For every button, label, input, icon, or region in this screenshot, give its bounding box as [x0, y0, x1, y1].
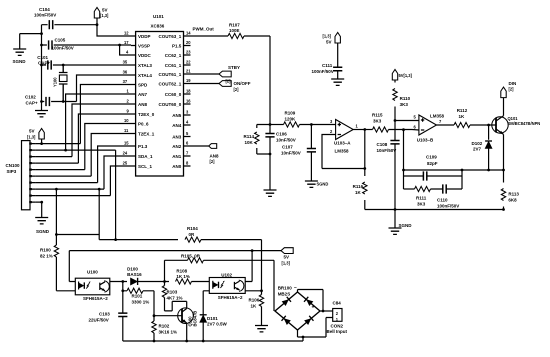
- svg-text:10nF/50V: 10nF/50V: [276, 137, 296, 142]
- svg-text:T2EX_0: T2EX_0: [138, 112, 155, 117]
- svg-text:C111: C111: [322, 63, 333, 68]
- wire CON2 pin1 to bridge bottom: [298, 318, 333, 338]
- svg-text:R113: R113: [508, 192, 519, 197]
- node R116 tap: [363, 167, 366, 170]
- wire CN100 pin10 to ground: [35, 202, 41, 217]
- svg-text:[2]: [2]: [210, 159, 216, 164]
- svg-text:[1,3]: [1,3]: [100, 13, 109, 18]
- IC U101 right pin numbers: [186, 31, 191, 166]
- wire R110 node to opamp B +in: [395, 120, 419, 122]
- svg-text:D100: D100: [127, 266, 138, 271]
- svg-text:36: 36: [123, 70, 128, 75]
- svg-text:2V7: 2V7: [473, 147, 482, 152]
- svg-text:10nF/50V: 10nF/50V: [377, 148, 397, 153]
- wire bottom common rail: [123, 337, 303, 341]
- op-amp U103-B LM358: [414, 114, 445, 143]
- node R104 feed: [114, 238, 117, 241]
- capacitor C108: [377, 121, 400, 210]
- svg-text:AN4: AN4: [172, 123, 181, 128]
- svg-text:C110: C110: [437, 198, 448, 203]
- svg-text:XTAL3: XTAL3: [138, 63, 152, 68]
- svg-text:R112: R112: [457, 108, 468, 113]
- svg-text:5V: 5V: [102, 8, 108, 13]
- 5V power symbol (R110): [392, 70, 412, 81]
- resistor R116: [353, 169, 367, 210]
- svg-text:R102: R102: [159, 324, 170, 329]
- svg-text:R105, 0R: R105, 0R: [181, 253, 201, 258]
- svg-text:LM358: LM358: [335, 149, 350, 154]
- svg-text:120K: 120K: [285, 116, 297, 121]
- svg-text:C109: C109: [426, 155, 437, 160]
- resistor R108: [176, 268, 210, 284]
- svg-text:3300 1%: 3300 1%: [132, 299, 150, 304]
- svg-text:16: 16: [186, 99, 191, 104]
- wire R112 to Q101 base: [470, 124, 496, 126]
- capacitor C107: [281, 125, 316, 182]
- svg-text:1K 1%: 1K 1%: [176, 274, 190, 279]
- svg-text:100nF/50V: 100nF/50V: [312, 69, 334, 74]
- node Q100 base: [153, 314, 156, 317]
- svg-text:CC62_1: CC62_1: [165, 53, 182, 58]
- node feedback B junction: [402, 128, 405, 131]
- svg-text:37: 37: [123, 79, 128, 84]
- wire opamp B feedback vertical: [403, 130, 405, 189]
- svg-text:P0_6: P0_6: [138, 122, 149, 127]
- svg-text:LM358: LM358: [430, 114, 445, 119]
- wire R109 to opamp A +in: [300, 124, 336, 126]
- IC U101 left pin numbers: [123, 31, 130, 166]
- tag 5V [1,3] (supply flag): [281, 248, 293, 266]
- svg-text:AN8: AN8: [210, 154, 219, 159]
- resistor R104: [185, 226, 201, 242]
- svg-text:AN0: AN0: [172, 164, 181, 169]
- svg-text:[1,3]: [1,3]: [282, 260, 291, 265]
- node R103/R105 junction: [163, 280, 166, 283]
- svg-text:SPD: SPD: [138, 83, 148, 88]
- node filter top and bottom: [269, 123, 272, 126]
- svg-text:ON/OFF: ON/OFF: [234, 81, 251, 86]
- svg-text:100nF/50V: 100nF/50V: [34, 13, 56, 18]
- svg-text:R106: R106: [249, 298, 260, 303]
- wire PWM out to R107: [191, 35, 229, 37]
- diode D100 BAS16: [127, 266, 169, 285]
- node C107 tap: [310, 123, 313, 126]
- svg-text:U102: U102: [221, 272, 232, 277]
- svg-text:P1.5: P1.5: [172, 44, 182, 49]
- resistor R110: [393, 80, 411, 121]
- svg-text:C84: C84: [333, 300, 342, 305]
- wire U100 collector to D100: [110, 281, 127, 283]
- svg-text:Y100: Y100: [53, 77, 58, 87]
- svg-text:5V: 5V: [326, 40, 332, 45]
- svg-text:3K3: 3K3: [400, 102, 409, 107]
- capacitor C102: [25, 95, 49, 107]
- node U102 collector tap: [251, 249, 254, 252]
- svg-text:C104: C104: [39, 7, 50, 12]
- svg-text:C106: C106: [276, 132, 287, 137]
- ground (R106): [255, 326, 268, 332]
- op-amp U103-A LM358: [330, 119, 359, 154]
- svg-text:82 1%: 82 1%: [40, 253, 53, 258]
- wire bridge plus to CON2 pin2 row: [320, 310, 333, 312]
- wire CN100 pin7 to P1.3: [35, 146, 131, 183]
- svg-text:10K: 10K: [245, 140, 254, 145]
- node opamp A output: [363, 128, 366, 131]
- svg-text:3K16 1%: 3K16 1%: [159, 329, 178, 334]
- svg-text:T2EX_1: T2EX_1: [138, 132, 155, 137]
- svg-text:CN100: CN100: [6, 163, 21, 168]
- wire CN100 pin5 to P0_6: [35, 124, 131, 170]
- svg-text:21: 21: [186, 69, 191, 74]
- svg-text:C101: C101: [37, 55, 48, 60]
- wire R107 to filter node: [244, 36, 270, 125]
- svg-text:U103–A: U103–A: [334, 141, 351, 146]
- ground SGND (top left): [13, 34, 27, 64]
- resistor R113: [501, 170, 519, 210]
- svg-text:U100: U100: [87, 269, 98, 274]
- svg-text:SDA_1: SDA_1: [138, 154, 153, 159]
- wire opto drive jog to R104: [56, 235, 178, 240]
- svg-text:22UF/50V: 22UF/50V: [89, 317, 109, 322]
- wire bridge minus output to CON2 pin2: [298, 290, 324, 312]
- tag DIN: [501, 81, 516, 98]
- svg-text:BAS16: BAS16: [127, 272, 142, 277]
- svg-text:R110: R110: [400, 96, 411, 101]
- svg-text:VSSP: VSSP: [138, 44, 150, 49]
- node crystal top: [62, 64, 65, 67]
- optocoupler U100 SFH615A-2: [75, 269, 110, 301]
- capacitor C101: [37, 55, 51, 70]
- wire C102 row to XTAL4: [42, 75, 132, 102]
- svg-text:10nF/50V: 10nF/50V: [281, 150, 301, 155]
- svg-text:19: 19: [186, 78, 191, 83]
- svg-text:U101: U101: [153, 14, 164, 19]
- svg-text:D102: D102: [472, 141, 483, 146]
- resistor R109: [270, 111, 300, 128]
- svg-text:R107: R107: [229, 23, 240, 28]
- svg-text:12: 12: [124, 31, 129, 36]
- wire CN100 pin2 to AN7 and R104 feed: [35, 94, 131, 240]
- svg-text:COUT63_1: COUT63_1: [159, 34, 182, 39]
- resistor R107: [228, 23, 244, 39]
- IC U101 left pin stubs: [131, 36, 136, 166]
- svg-text:AN8: AN8: [138, 102, 147, 107]
- IC U101 left pin names: [138, 34, 155, 169]
- svg-text:[2]: [2]: [234, 87, 240, 92]
- wire analog ground rail: [365, 209, 504, 211]
- node feedback left: [402, 169, 405, 172]
- capacitor C110: [431, 184, 463, 208]
- resistor R106: [249, 291, 264, 326]
- svg-text:20: 20: [186, 40, 191, 45]
- svg-text:PWM_Out: PWM_Out: [193, 27, 215, 32]
- svg-text:1K: 1K: [251, 303, 258, 308]
- wire emitter/feedback horizontal: [404, 169, 504, 171]
- node rail junctions bottom: [153, 340, 156, 343]
- svg-text:C105: C105: [55, 38, 66, 43]
- svg-text:XTAL4: XTAL4: [138, 73, 152, 78]
- svg-text:COUT61_1: COUT61_1: [159, 72, 182, 77]
- capacitor C106: [265, 125, 295, 155]
- optocoupler U102 SFH615A-2: [209, 272, 245, 300]
- ground (crystal): [35, 102, 48, 117]
- svg-text:BR100: BR100: [278, 286, 293, 291]
- svg-text:18: 18: [186, 89, 191, 94]
- wire 5V supply run (U100 anode / U102 collector): [69, 251, 281, 282]
- svg-text:SIP3: SIP3: [7, 169, 17, 174]
- svg-text:23: 23: [186, 50, 191, 55]
- svg-text:SGND: SGND: [317, 182, 329, 187]
- ground (C111): [331, 79, 344, 85]
- wire CN100 pin1 to 5V and SPD: [35, 85, 131, 144]
- diode D102 (zener 2V7): [472, 125, 493, 170]
- svg-text:5V: 5V: [29, 129, 35, 134]
- svg-text:[2]: [2]: [509, 87, 515, 92]
- svg-text:CC61_1: CC61_1: [165, 63, 182, 68]
- svg-text:22: 22: [186, 60, 191, 65]
- svg-text:SM/BC847B/NPN: SM/BC847B/NPN: [508, 121, 541, 126]
- svg-text:100nF/50V: 100nF/50V: [437, 203, 459, 208]
- svg-text:BC847B: BC847B: [193, 311, 198, 327]
- svg-text:COUT60_0: COUT60_0: [159, 102, 182, 107]
- node R100 top junction: [55, 233, 58, 236]
- svg-text:4K7 1%: 4K7 1%: [167, 295, 183, 300]
- wire CN100 pin8 to SDA_1 with opto branches: [35, 156, 131, 235]
- svg-text:0R: 0R: [189, 232, 196, 237]
- wire CN100 pin3 to AN8: [35, 104, 131, 157]
- wire CN100 pin4 to T2EX_0: [35, 114, 131, 163]
- bridge rectifier BR100 MB2S: [275, 285, 320, 330]
- svg-text:SCL_1: SCL_1: [138, 164, 153, 169]
- node CN100 pin1: [40, 142, 43, 145]
- svg-text:6K8: 6K8: [508, 197, 517, 202]
- svg-text:U103–B: U103–B: [417, 138, 434, 143]
- svg-text:R101: R101: [132, 294, 143, 299]
- 5V power symbol (above CN100): [27, 129, 44, 140]
- svg-text:−: −: [294, 285, 297, 291]
- wire opamp A feedback loop: [322, 130, 365, 169]
- svg-text:Bell Input: Bell Input: [327, 329, 348, 334]
- svg-text:AN3: AN3: [172, 135, 181, 140]
- node emitter junction: [502, 169, 505, 172]
- svg-text:100E: 100E: [229, 28, 240, 33]
- svg-text:STBY: STBY: [228, 65, 240, 70]
- resistor R112: [437, 108, 471, 128]
- svg-text:COUT62_1: COUT62_1: [159, 82, 182, 87]
- svg-text:1K: 1K: [459, 114, 466, 119]
- node U100 emitter / C103: [121, 289, 124, 292]
- svg-text:SFH615A–2: SFH615A–2: [218, 295, 243, 300]
- svg-text:R103: R103: [167, 290, 178, 295]
- svg-text:14: 14: [186, 31, 191, 36]
- wire R115 to opamp B -in: [389, 129, 419, 132]
- node C103/R101 top: [121, 280, 124, 283]
- svg-text:3K3: 3K3: [373, 118, 382, 123]
- svg-text:R115: R115: [372, 113, 383, 118]
- svg-text:1K: 1K: [355, 190, 362, 195]
- svg-text:AN1: AN1: [172, 154, 181, 159]
- svg-text:C108: C108: [377, 142, 388, 147]
- ground SGND (CN100): [35, 218, 50, 235]
- node pin2 junction: [322, 310, 325, 313]
- transistor Q100 BC847B: [154, 308, 198, 341]
- svg-text:SGND: SGND: [13, 59, 27, 64]
- wire CN100 pin6 to T2EX_1: [35, 134, 131, 177]
- 5V power symbol (top, near IC): [94, 8, 109, 25]
- connector CN100 SIP3: [6, 141, 36, 210]
- resistor R115: [365, 113, 389, 133]
- svg-text:VDDC: VDDC: [138, 53, 152, 58]
- svg-text:82pF: 82pF: [427, 161, 438, 166]
- svg-text:[1,3]: [1,3]: [27, 135, 36, 140]
- svg-text:R104: R104: [187, 226, 198, 231]
- svg-text:R100: R100: [40, 248, 51, 253]
- svg-text:P1.3: P1.3: [138, 144, 148, 149]
- connector CON2 Bell Input: [327, 300, 348, 334]
- resistor R103: [162, 282, 186, 311]
- svg-text:AN5: AN5: [172, 113, 181, 118]
- node D102 top: [487, 124, 490, 127]
- svg-text:C103: C103: [99, 312, 110, 317]
- svg-text:MB2S: MB2S: [278, 291, 291, 296]
- resistor R114: [244, 125, 271, 155]
- wire feedback right vertical: [461, 170, 463, 189]
- tag AN8 (from AN2 pin): [191, 144, 219, 164]
- svg-text:R109: R109: [285, 111, 296, 116]
- node pin2 junction: [64, 149, 67, 152]
- capacitor C104: [34, 7, 56, 30]
- diode D101 (zener 2V7 0.5W): [200, 291, 228, 341]
- wire C105 to VSSP and VDDC branch: [42, 45, 132, 55]
- node C102 junctions: [40, 100, 43, 103]
- svg-text:C107: C107: [282, 145, 293, 150]
- node rail to bridge: [302, 336, 305, 339]
- svg-text:CAP+: CAP+: [26, 100, 39, 105]
- svg-text:[1,3]: [1,3]: [323, 34, 332, 39]
- wire C101 row to XTAL3: [42, 64, 132, 66]
- svg-text:VDDP: VDDP: [138, 34, 151, 39]
- ground SGND (rail): [389, 210, 413, 235]
- svg-text:R111: R111: [416, 196, 427, 201]
- 5V power symbol (C111): [323, 33, 341, 45]
- svg-text:R108: R108: [176, 268, 187, 273]
- resistor R100: [40, 235, 75, 291]
- svg-text:SGND: SGND: [399, 223, 413, 228]
- node pin8 branches: [55, 188, 58, 191]
- resistor R102: [152, 316, 177, 341]
- node decoupling junctions: [40, 32, 43, 35]
- svg-text:CON2: CON2: [331, 323, 344, 328]
- IC U101 right pin names: [159, 34, 182, 169]
- tag STBY: [191, 65, 241, 84]
- svg-text:C102: C102: [25, 95, 36, 100]
- capacitor C105: [49, 38, 74, 51]
- wire 5V rail to VDDP: [42, 25, 132, 36]
- svg-text:SFH615A–2: SFH615A–2: [83, 296, 108, 301]
- wire ground to decoupling vertical: [20, 25, 42, 102]
- svg-text:SGND: SGND: [36, 229, 50, 234]
- svg-text:XC836: XC836: [151, 23, 165, 28]
- resistor R101: [123, 282, 154, 316]
- ground SGND (C107): [305, 181, 328, 187]
- svg-text:25: 25: [123, 161, 128, 166]
- wire R104 to U102 emitter: [201, 240, 262, 291]
- svg-text:CC60_0: CC60_0: [165, 92, 182, 97]
- node feedback right: [461, 169, 464, 172]
- wire U102 emitter stub: [245, 290, 261, 292]
- svg-text:3K3: 3K3: [417, 201, 426, 206]
- transistor Q101 SM/BC847B/NPN: [492, 98, 541, 170]
- svg-text:AN7: AN7: [138, 92, 147, 97]
- svg-text:10: 10: [124, 118, 129, 123]
- svg-text:11: 11: [124, 128, 129, 133]
- svg-text:5V: 5V: [284, 255, 290, 260]
- ground (filter): [264, 154, 277, 196]
- node pin10: [40, 201, 43, 204]
- svg-text:5V[1,3]: 5V[1,3]: [399, 73, 413, 78]
- svg-text:R114: R114: [244, 134, 255, 139]
- svg-text:R116: R116: [353, 184, 364, 189]
- node VDDC branch: [118, 44, 121, 47]
- resistor R105 0R: [165, 253, 275, 311]
- node rail junctions: [394, 208, 397, 211]
- node 5V/C104 junction: [96, 23, 99, 26]
- svg-text:2V7 0.5W: 2V7 0.5W: [207, 322, 228, 327]
- IC U101 XC836 body: [136, 14, 184, 176]
- svg-text:D101: D101: [207, 316, 218, 321]
- svg-text:+: +: [312, 305, 315, 311]
- svg-text:100nF/50V: 100nF/50V: [52, 45, 74, 50]
- capacitor C109: [404, 155, 463, 181]
- node U102 emitter: [260, 289, 263, 292]
- svg-text:DIN: DIN: [509, 81, 517, 86]
- svg-text:24: 24: [123, 151, 128, 156]
- svg-text:15: 15: [124, 141, 129, 146]
- capacitor C111: [312, 43, 343, 79]
- node +in B: [394, 119, 397, 122]
- wire opamp A output: [353, 129, 366, 131]
- IC U101 right pin stubs: [184, 36, 191, 166]
- capacitor C103: [89, 291, 128, 341]
- resistor R111: [404, 186, 431, 206]
- tag ON/OFF: [191, 81, 251, 92]
- svg-text:35: 35: [123, 60, 128, 65]
- svg-text:AN2: AN2: [172, 144, 181, 149]
- crystal Y100: [53, 65, 68, 102]
- wire CN100 pin9 to SCL_1: [35, 166, 131, 196]
